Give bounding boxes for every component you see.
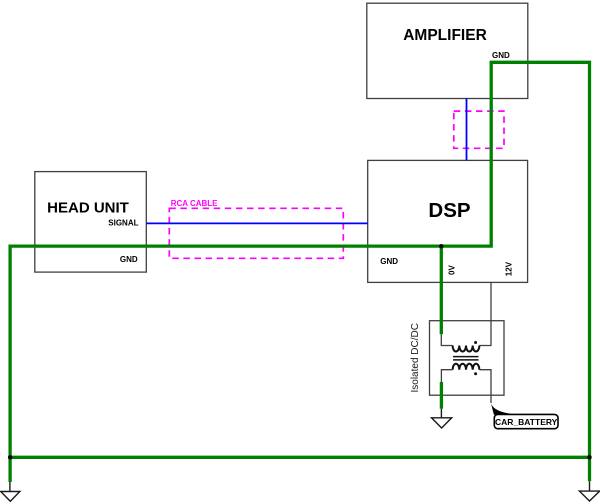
transformer T1 primary dot <box>474 341 477 344</box>
ground symbol (bottom right) <box>579 481 599 501</box>
transformer T1 core <box>453 357 479 360</box>
block AMPLIFIER <box>367 3 528 98</box>
svg-text:SIGNAL: SIGNAL <box>108 219 138 228</box>
wire ground green bottom rail <box>10 456 589 459</box>
junction (bottom right) <box>587 455 591 459</box>
wire signal blue (head unit SIGNAL to DSP) <box>146 222 367 224</box>
ground symbol (bottom left) <box>1 482 20 501</box>
wire transformer secondary right lead (to CAR_BATTERY) <box>479 370 491 403</box>
svg-text:12V: 12V <box>505 261 514 276</box>
block DSP <box>368 160 528 282</box>
junction (bottom left) <box>8 455 12 459</box>
svg-text:0V: 0V <box>448 265 457 275</box>
wire transformer primary left lead <box>441 334 452 345</box>
net flag CAR_BATTERY <box>491 404 558 429</box>
transformer T1 secondary winding <box>453 364 480 370</box>
block Isolated DC/DC <box>410 321 504 396</box>
block HEAD UNIT <box>35 172 147 273</box>
svg-text:RCA CABLE: RCA CABLE <box>171 199 218 208</box>
svg-text:GND: GND <box>120 255 138 264</box>
wire 0V green (dsp to DC/DC) <box>440 246 443 334</box>
transformer T1 primary winding <box>453 346 480 352</box>
ground symbol (below DC/DC) <box>432 409 452 428</box>
svg-text:GND: GND <box>492 51 510 60</box>
svg-text:CAR_BATTERY: CAR_BATTERY <box>495 417 558 427</box>
junction (0V at dsp) <box>439 244 443 248</box>
svg-text:GND: GND <box>380 257 398 266</box>
wire green (DC/DC secondary to ground) <box>440 382 443 409</box>
transformer T1 secondary dot <box>474 372 477 375</box>
svg-text:DSP: DSP <box>428 199 470 222</box>
wire 12V lead (dsp to transformer primary right) <box>479 282 491 345</box>
svg-text:AMPLIFIER: AMPLIFIER <box>403 27 487 44</box>
highlight box RCA CABLE (head unit to dsp) <box>169 208 343 258</box>
wire signal blue (amplifier to DSP) <box>466 99 468 161</box>
highlight box RCA cable (amplifier to dsp) <box>454 111 504 148</box>
wire transformer secondary left lead <box>441 370 452 382</box>
svg-text:HEAD UNIT: HEAD UNIT <box>47 199 129 216</box>
svg-text:Isolated DC/DC: Isolated DC/DC <box>410 323 421 392</box>
